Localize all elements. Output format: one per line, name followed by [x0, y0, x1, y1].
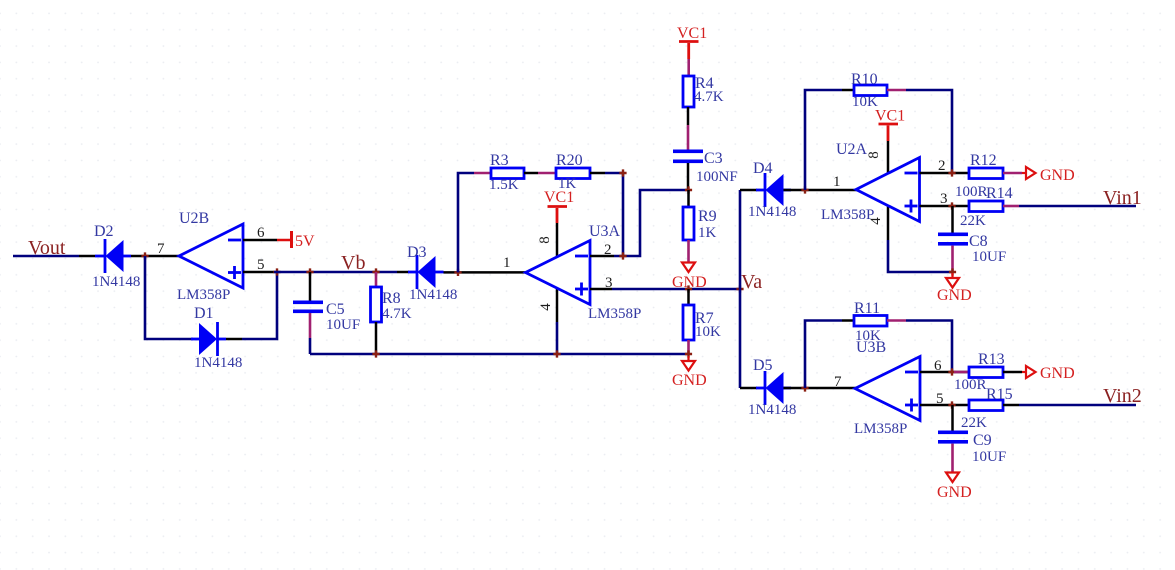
resistor R4 [683, 75, 724, 107]
svg-text:GND: GND [1040, 365, 1075, 382]
junction R7/bus [685, 350, 692, 357]
wire pin 8 stub [556, 223, 559, 257]
wire R7 to bus [687, 340, 690, 354]
wire C5 top pin [309, 272, 312, 301]
wire pin 6 U3B [920, 371, 969, 374]
wire VC1 to R4 [687, 59, 690, 76]
resistor R11 [854, 300, 887, 344]
ground C9 [937, 473, 972, 502]
wire D5 left stub [740, 387, 757, 390]
svg-text:Vin1: Vin1 [1103, 187, 1142, 209]
ground C8 [937, 273, 972, 304]
wire pin 4 stub U2A [887, 205, 890, 240]
svg-text:C5: C5 [326, 301, 345, 318]
svg-text:R11: R11 [854, 300, 880, 317]
wire Vin1 net [1019, 205, 1136, 208]
junction pin2/R20 vertical [619, 252, 626, 259]
wire R10 left lead [842, 89, 854, 92]
wire C3 to junction [687, 163, 690, 190]
op-amp U3A [526, 223, 642, 322]
wire R3-R20 link [524, 172, 538, 175]
svg-text:R3: R3 [490, 152, 509, 169]
wire R10 right lead [887, 89, 906, 92]
op-amp U2A [821, 141, 920, 223]
power symbol VC1 above U3A [544, 189, 574, 223]
junction pin5/D1 [273, 268, 280, 275]
svg-text:VC1: VC1 [544, 189, 574, 206]
junction pin5/C9 [948, 401, 955, 408]
svg-text:Vin2: Vin2 [1103, 385, 1142, 407]
svg-text:1K: 1K [698, 225, 717, 241]
wire C9 bottom [951, 444, 954, 472]
wire R8 bottom lead [375, 322, 378, 354]
svg-text:D3: D3 [407, 244, 427, 261]
svg-text:LM358P: LM358P [821, 207, 874, 223]
svg-text:D1: D1 [194, 305, 214, 322]
svg-text:1N4148: 1N4148 [194, 355, 242, 371]
wire R12 right lead [1003, 172, 1022, 175]
svg-text:R12: R12 [970, 152, 997, 169]
junction C8/pin4 corner [949, 268, 956, 275]
svg-text:GND: GND [937, 484, 972, 501]
wire pin stub into D2 [79, 255, 95, 258]
svg-text:1: 1 [833, 174, 841, 190]
wire feedback vertical U2A [805, 90, 842, 190]
svg-text:VC1: VC1 [875, 108, 905, 125]
junction feedback tap U3B [801, 384, 808, 391]
wire D3 to U3A pin1 [444, 271, 527, 274]
svg-text:8: 8 [537, 236, 553, 244]
wire R4 to C3 [687, 107, 690, 125]
resistor R9 [683, 207, 717, 241]
svg-text:R10: R10 [851, 71, 878, 88]
wire D3 stub [397, 271, 409, 274]
resistor R10 [851, 71, 887, 110]
wire R11 left lead [842, 319, 854, 322]
wire pin 6 [243, 239, 277, 242]
svg-text:3: 3 [940, 191, 948, 207]
svg-text:1.5K: 1.5K [489, 177, 519, 193]
svg-text:10UF: 10UF [326, 317, 360, 333]
wire R13 left lead [954, 371, 969, 374]
svg-text:D5: D5 [753, 357, 773, 374]
wire D5 to U3B pin7 [784, 387, 857, 390]
wire R20 right to corner [590, 172, 605, 175]
svg-text:Vb: Vb [341, 252, 365, 274]
svg-text:R8: R8 [382, 290, 401, 307]
wire R14 right lead [1003, 205, 1019, 208]
wire D1 to right vertical [226, 338, 242, 341]
svg-text:1N4148: 1N4148 [748, 402, 796, 418]
wire R9 to GND [687, 240, 690, 262]
ground R12 [1022, 167, 1075, 184]
resistor R7 [683, 305, 721, 340]
wire D2 to U2B pin7 [131, 255, 179, 258]
svg-text:1N4148: 1N4148 [92, 274, 140, 290]
svg-text:4: 4 [868, 217, 884, 225]
wire R13 right lead [1003, 371, 1022, 374]
junction pin6/R11 vertical [948, 368, 955, 375]
wire pin 4 stub [556, 288, 559, 322]
diode D5 [748, 357, 796, 418]
wire feedback vertical U3B [805, 321, 842, 389]
svg-text:22K: 22K [961, 415, 987, 431]
svg-text:VC1: VC1 [677, 25, 707, 42]
svg-text:C9: C9 [973, 432, 992, 449]
wire C8 bottom [951, 246, 954, 272]
svg-text:GND: GND [672, 372, 707, 389]
resistor R12 [955, 152, 1003, 200]
op-amp U2B [177, 210, 243, 303]
power symbol 5V [277, 231, 315, 250]
svg-text:LM358P: LM358P [854, 421, 907, 437]
wire Vb net [274, 271, 397, 274]
svg-text:7: 7 [157, 241, 165, 257]
resistor R15 [961, 386, 1013, 431]
resistor R8 [371, 287, 412, 322]
diode D2 [92, 223, 140, 290]
wire Va to R7 [687, 289, 690, 305]
wire pin 2 U2A [920, 172, 970, 175]
op-amp U3B [854, 339, 920, 437]
wire vertical D4-D5 [739, 190, 742, 388]
diode D3 [407, 244, 457, 303]
wire junction to R9 [687, 190, 690, 207]
svg-text:D2: D2 [94, 223, 114, 240]
svg-text:U3B: U3B [856, 339, 886, 356]
wire R3 left lead [474, 172, 491, 175]
capacitor C8 [938, 233, 1006, 266]
junction R8/bus [372, 350, 379, 357]
junction C3/R9/wire [685, 186, 692, 193]
svg-text:10UF: 10UF [972, 449, 1006, 465]
svg-text:5: 5 [257, 257, 265, 273]
ground bus end [672, 356, 707, 389]
wire D4 left stub [740, 189, 757, 192]
svg-text:C3: C3 [704, 150, 723, 167]
svg-text:22K: 22K [960, 213, 986, 229]
junction feedback tap U2A [801, 186, 808, 193]
power symbol VC1 above U2A [875, 108, 905, 142]
svg-text:D4: D4 [753, 160, 773, 177]
svg-text:7: 7 [834, 374, 842, 390]
junction Vb/C5 [306, 268, 313, 275]
wire vertical down to D1 loop [145, 256, 193, 339]
wire Vout net [13, 255, 79, 258]
svg-text:10UF: 10UF [972, 249, 1006, 265]
wire up to pin5 line [242, 272, 277, 339]
wire ground bus bottom [310, 353, 689, 356]
svg-text:100NF: 100NF [696, 169, 738, 185]
diode D1 [191, 305, 242, 371]
capacitor C9 [938, 431, 1006, 466]
wire pin 3 [590, 288, 612, 291]
wire R11 right lead [887, 319, 906, 322]
wire pin 5 [243, 271, 274, 274]
svg-text:U2B: U2B [179, 210, 209, 227]
wire C9 top pin [951, 405, 954, 431]
wire R8 top lead [375, 272, 378, 287]
svg-text:LM358P: LM358P [177, 287, 230, 303]
svg-text:1: 1 [503, 255, 511, 271]
svg-text:5V: 5V [295, 233, 315, 250]
capacitor C3 [673, 150, 738, 186]
svg-text:U3A: U3A [589, 223, 621, 240]
wire Vin2 net [1019, 404, 1136, 407]
svg-text:Va: Va [741, 271, 762, 293]
svg-text:GND: GND [937, 287, 972, 304]
svg-text:R20: R20 [556, 152, 583, 169]
svg-text:4: 4 [538, 303, 554, 311]
capacitor C5 [293, 301, 360, 334]
resistor R14 [960, 185, 1013, 229]
junction Va/vertical [736, 285, 743, 292]
svg-text:4.7K: 4.7K [694, 89, 724, 105]
junction feedback tap [454, 269, 461, 276]
wire D4 to U2A pin1 [784, 189, 858, 192]
resistor R13 [954, 351, 1005, 393]
wire R15 right lead [1003, 404, 1019, 407]
diode D4 [748, 160, 796, 220]
svg-text:6: 6 [257, 225, 265, 241]
wire pin 3 U2A [920, 205, 970, 208]
resistor R3 [489, 152, 524, 193]
svg-text:1N4148: 1N4148 [409, 287, 457, 303]
svg-text:R9: R9 [698, 208, 717, 225]
wire feedback vertical [458, 173, 474, 272]
svg-text:C8: C8 [969, 233, 988, 250]
svg-text:4.7K: 4.7K [382, 306, 412, 322]
junction pin3/C8 [948, 202, 955, 209]
ground R13 [1022, 365, 1075, 382]
svg-text:100R: 100R [954, 377, 987, 393]
svg-text:U2A: U2A [836, 141, 868, 158]
wire pin 5 U3B [920, 404, 969, 407]
svg-text:10K: 10K [695, 324, 721, 340]
junction R20 corner [619, 169, 626, 176]
wire pin 8 stub U2A [887, 141, 890, 174]
ground R9 [672, 263, 707, 292]
svg-text:8: 8 [866, 151, 882, 159]
wire Va net [612, 288, 740, 291]
wire C5 bottom [309, 313, 312, 338]
svg-text:R13: R13 [978, 351, 1005, 368]
power symbol VC1 above R4 [677, 25, 707, 59]
resistor R20 [556, 152, 590, 192]
junction Va/R7 [685, 285, 692, 292]
junction at D2 output node [141, 252, 148, 259]
svg-text:2: 2 [938, 158, 946, 174]
wire C8 top pin [951, 206, 954, 233]
svg-text:100R: 100R [955, 184, 988, 200]
wire pin 2 [590, 255, 614, 258]
svg-text:R14: R14 [986, 185, 1013, 202]
junction Vb/R8 [372, 268, 379, 275]
svg-text:GND: GND [1040, 167, 1075, 184]
junction pin2/R10 vertical [948, 169, 955, 176]
svg-text:LM358P: LM358P [588, 306, 641, 322]
svg-text:R15: R15 [986, 386, 1013, 403]
junction pin4/bus [553, 350, 560, 357]
svg-text:1N4148: 1N4148 [748, 204, 796, 220]
